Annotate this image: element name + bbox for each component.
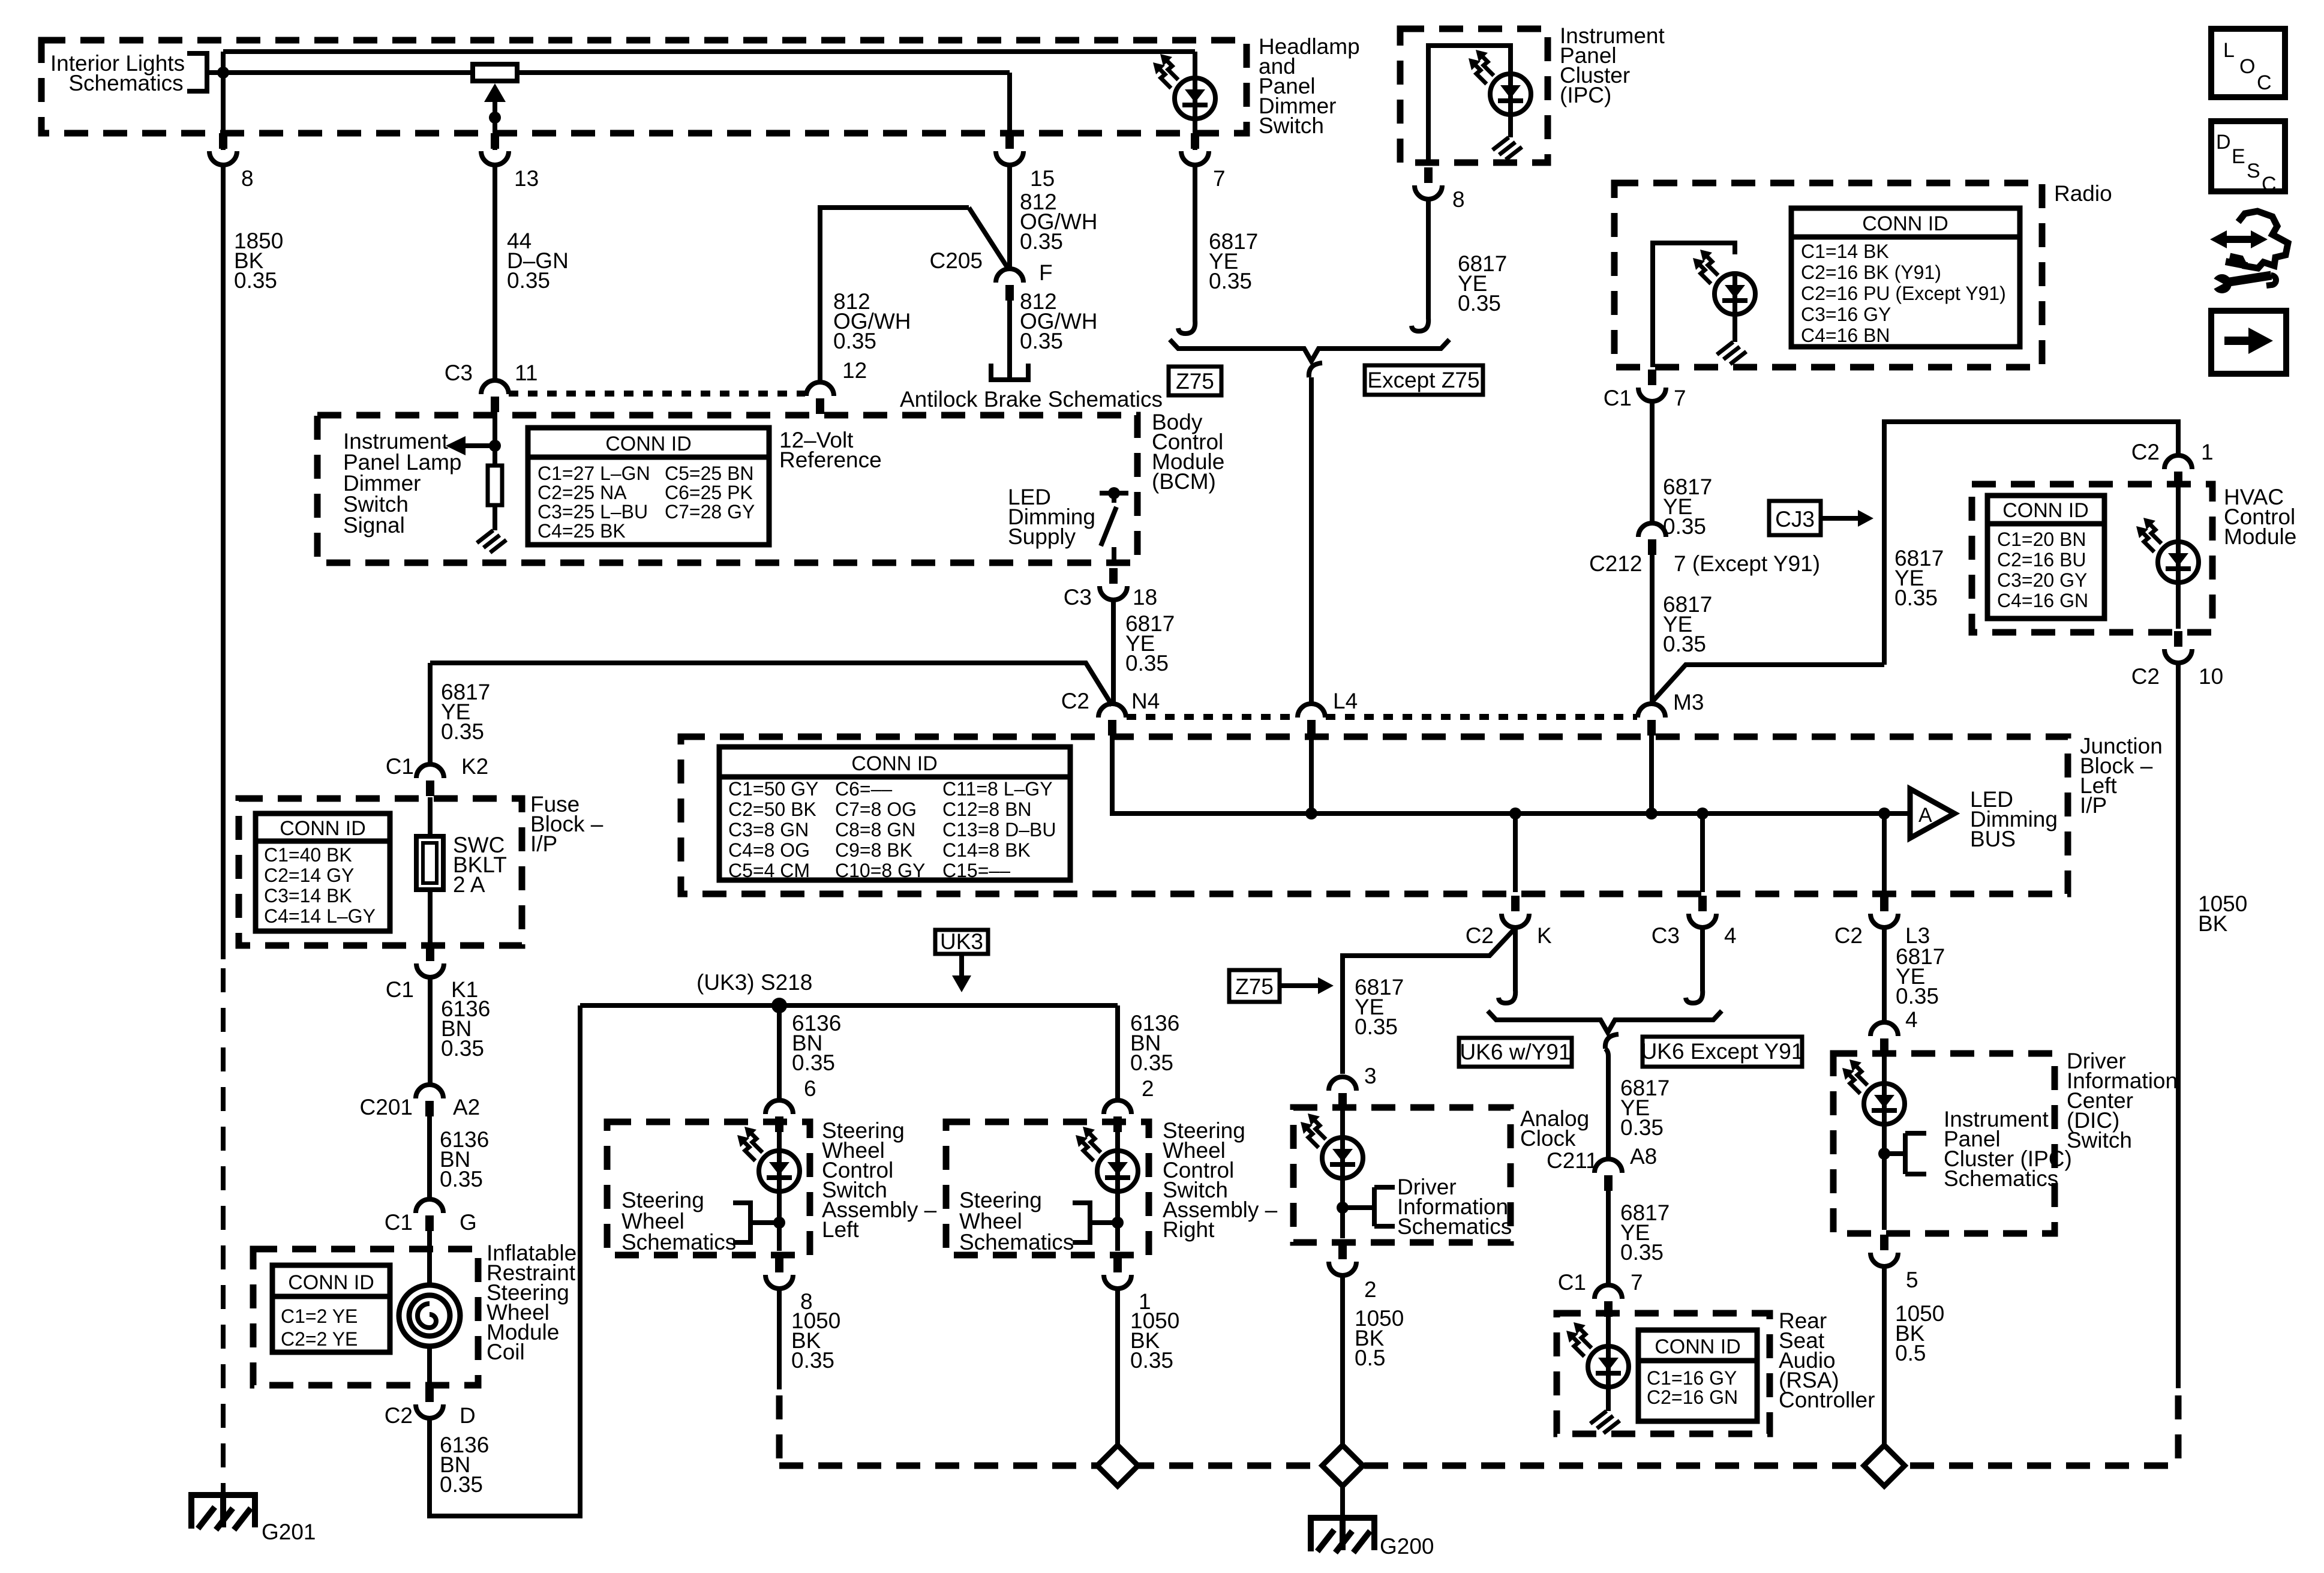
svg-text:Antilock Brake Schematics: Antilock Brake Schematics — [900, 387, 1163, 412]
wire clock internal — [1340, 1107, 1345, 1137]
connector pin M3 — [1638, 704, 1665, 736]
svg-text:0.35: 0.35 — [1896, 984, 1939, 1008]
svg-text:C3: C3 — [1652, 923, 1680, 948]
svg-text:C: C — [2262, 173, 2277, 196]
interior lights schematics box — [41, 40, 1247, 133]
svg-text:2: 2 — [1142, 1076, 1154, 1101]
box label Except Z75 — [1365, 365, 1483, 395]
wire 1050 BK left — [777, 1289, 782, 1389]
HVAC control module dashed box — [1972, 484, 2212, 632]
connector C1 pin 7 (radio) — [1638, 370, 1666, 401]
wire below fuse — [428, 890, 433, 944]
svg-text:C2=16 BU: C2=16 BU — [1997, 549, 2086, 571]
analog clock dashed box — [1293, 1107, 1511, 1242]
wire 6817 YE except Z75 — [1426, 200, 1431, 319]
wiper arrow of rheostat — [484, 83, 506, 102]
svg-text:C2: C2 — [1061, 689, 1089, 713]
svg-text:D: D — [460, 1403, 476, 1428]
connector C1 pin K2 — [416, 764, 444, 796]
svg-text:15: 15 — [1030, 166, 1055, 191]
svg-text:8: 8 — [241, 166, 254, 191]
svg-text:UK6 w/Y91: UK6 w/Y91 — [1460, 1040, 1571, 1064]
svg-text:0.5: 0.5 — [1895, 1341, 1926, 1365]
svg-text:Reference: Reference — [779, 448, 882, 472]
svg-text:C3=14 BK: C3=14 BK — [264, 885, 352, 906]
options brace Z75 — [1170, 340, 1449, 361]
svg-text:C2=2 YE: C2=2 YE — [281, 1328, 358, 1350]
svg-text:G200: G200 — [1380, 1534, 1434, 1559]
wire 6817 YE to N4 — [1111, 601, 1116, 703]
CONN ID table coil — [272, 1265, 390, 1352]
svg-text:C2: C2 — [2131, 664, 2160, 689]
svg-text:4: 4 — [1724, 923, 1737, 948]
wire merged 6817 to C211 — [1605, 1049, 1608, 1158]
svg-text:C3=20 GY: C3=20 GY — [1997, 569, 2087, 591]
connector C212 pin 7 — [1638, 523, 1666, 555]
svg-text:Right: Right — [1163, 1217, 1215, 1242]
coil clockspring spiral — [399, 1285, 460, 1346]
svg-text:0.35: 0.35 — [1209, 269, 1252, 293]
wire 6136 BN to coil — [427, 1115, 432, 1199]
svg-text:UK6 Except Y91: UK6 Except Y91 — [1641, 1039, 1804, 1064]
bracket driver information — [1343, 1187, 1395, 1226]
wire IPC internal — [1428, 46, 1511, 163]
svg-text:C211: C211 — [1547, 1148, 1598, 1173]
box label UK3 — [935, 930, 988, 954]
svg-text:C1=50 GY: C1=50 GY — [728, 778, 818, 800]
svg-text:C4=16 GN: C4=16 GN — [1997, 590, 2088, 611]
connector C2 pin D — [416, 1386, 443, 1418]
svg-text:CONN ID: CONN ID — [2002, 499, 2089, 522]
svg-text:C3: C3 — [1064, 585, 1092, 610]
arrow to instrument panel lamp text — [464, 443, 495, 448]
connector C3 pin 11 — [481, 380, 509, 412]
svg-text:1: 1 — [2201, 440, 2214, 464]
options brace UK6 — [1488, 1011, 1722, 1032]
svg-text:E: E — [2232, 145, 2245, 168]
svg-text:C13=8 D–BU: C13=8 D–BU — [942, 819, 1056, 840]
svg-text:C7=28 GY: C7=28 GY — [665, 501, 755, 523]
svg-text:CONN ID: CONN ID — [851, 752, 938, 775]
svg-text:C1: C1 — [385, 1210, 413, 1235]
svg-text:F: F — [1039, 260, 1053, 285]
DIC switch dashed box — [1833, 1053, 2055, 1233]
connector pin 2 (clock) — [1329, 1244, 1356, 1275]
wire through left assembly — [777, 1131, 782, 1151]
wire bus drop to C3 4 — [1697, 807, 1709, 819]
connector pin 8 (left assembly) — [765, 1257, 793, 1289]
svg-text:(UK3) S218: (UK3) S218 — [696, 970, 812, 995]
svg-text:11: 11 — [515, 361, 538, 385]
svg-text:C1=16 GY: C1=16 GY — [1647, 1367, 1737, 1389]
svg-text:0.35: 0.35 — [791, 1348, 834, 1373]
svg-text:A8: A8 — [1630, 1144, 1657, 1169]
CONN ID table radio — [1791, 208, 2020, 347]
wire right drop to connector 2 — [1115, 1005, 1120, 1100]
LED clock illumination — [1301, 1113, 1363, 1179]
wire to tap — [1115, 1191, 1120, 1251]
svg-text:C205: C205 — [930, 248, 983, 273]
svg-text:Switch: Switch — [1259, 113, 1324, 138]
svg-text:A: A — [1918, 804, 1932, 827]
connector pin L4 — [1298, 704, 1325, 736]
svg-text:C6=25 PK: C6=25 PK — [665, 482, 753, 503]
connector C1 pin K1 — [416, 945, 444, 977]
wire diamond to G200 — [1340, 1486, 1345, 1517]
svg-text:Coil: Coil — [487, 1340, 525, 1364]
svg-text:0.35: 0.35 — [1663, 514, 1706, 539]
connector C201 pin A2 — [416, 1085, 443, 1116]
svg-text:C1=14 BK: C1=14 BK — [1801, 241, 1889, 262]
svg-text:0.35: 0.35 — [1663, 632, 1706, 656]
svg-text:7: 7 — [1213, 166, 1226, 191]
resistor dimmer rheostat — [473, 64, 517, 81]
svg-text:2: 2 — [1364, 1277, 1377, 1302]
connector C1 pin G — [416, 1199, 443, 1231]
svg-text:C1: C1 — [1558, 1270, 1586, 1295]
svg-text:3: 3 — [1364, 1064, 1377, 1088]
wire into coil — [427, 1230, 432, 1286]
svg-text:0.35: 0.35 — [1620, 1240, 1664, 1265]
wire dimmer signal — [493, 414, 497, 446]
svg-text:I/P: I/P — [530, 831, 557, 856]
LED RSA illumination — [1566, 1322, 1629, 1388]
svg-text:C14=8 BK: C14=8 BK — [942, 839, 1031, 861]
steering wheel sch box right — [946, 1122, 1149, 1255]
svg-text:A2: A2 — [453, 1095, 480, 1119]
svg-text:C3=25 L–BU: C3=25 L–BU — [538, 501, 648, 523]
svg-text:L: L — [2223, 39, 2235, 62]
svg-text:C15=––: C15=–– — [942, 860, 1010, 881]
LED IPC illumination — [1469, 50, 1531, 116]
dotted connector line N4-L4-M3 — [1127, 714, 1637, 720]
wire 1050 BK middle — [1115, 1289, 1120, 1446]
svg-text:C1=20 BN: C1=20 BN — [1997, 529, 2086, 550]
svg-text:0.5: 0.5 — [1355, 1346, 1385, 1370]
box label Z75 (2) — [1229, 970, 1280, 1002]
splice diamond left — [1097, 1445, 1138, 1486]
wire N4 to bus — [1112, 734, 1910, 813]
wire DIC internal — [1882, 1053, 1887, 1083]
bracket interior lights — [187, 53, 207, 91]
node junction dot — [217, 67, 229, 79]
svg-text:12: 12 — [842, 358, 867, 383]
BCM dotted top edge — [509, 391, 805, 397]
svg-text:C3=16 GY: C3=16 GY — [1801, 304, 1891, 325]
svg-text:7: 7 — [1631, 1270, 1643, 1295]
svg-text:Except Z75: Except Z75 — [1367, 368, 1479, 392]
svg-text:C1=2 YE: C1=2 YE — [281, 1305, 358, 1327]
svg-text:D: D — [2216, 131, 2231, 154]
svg-text:6: 6 — [804, 1076, 816, 1101]
svg-text:0.35: 0.35 — [234, 268, 277, 293]
wire to ground — [1733, 314, 1737, 342]
wire through right assembly — [1115, 1131, 1120, 1151]
svg-text:C3=8 GN: C3=8 GN — [728, 819, 809, 840]
svg-text:Module: Module — [2224, 524, 2296, 549]
wire 1850 BK drop — [221, 73, 226, 150]
connector C2 pin 10 — [2164, 631, 2192, 663]
svg-text:C212: C212 — [1589, 551, 1642, 576]
svg-text:C201: C201 — [360, 1095, 413, 1119]
svg-text:C9=8 BK: C9=8 BK — [835, 839, 912, 861]
resistor dimmer switch signal — [493, 446, 497, 466]
ground internal RSA — [1590, 1411, 1620, 1433]
splice diamond middle — [1322, 1445, 1363, 1486]
dashed option left edge — [776, 1395, 783, 1466]
svg-text:Controller: Controller — [1779, 1388, 1875, 1412]
wire L4 to bus — [1309, 734, 1314, 813]
rear seat audio dashed box — [1557, 1313, 1770, 1434]
arrow CJ3 — [1821, 516, 1859, 521]
wire 1850 BK dashed to ground — [221, 968, 226, 1494]
svg-text:Supply: Supply — [1008, 524, 1076, 549]
svg-text:C2: C2 — [2131, 440, 2160, 464]
svg-text:C5=25 BN: C5=25 BN — [665, 463, 754, 484]
LED headlamp dimmer — [1153, 54, 1215, 120]
svg-text:N4: N4 — [1131, 689, 1160, 713]
connector pin 15 — [996, 133, 1023, 165]
wire bus drop to C2 K — [1509, 807, 1521, 819]
splice S218 — [771, 998, 787, 1013]
wire left drop to connector 6 — [777, 1005, 782, 1100]
node dot dimmer signal — [489, 440, 501, 452]
svg-text:C12=8 BN: C12=8 BN — [942, 798, 1032, 820]
connector C2 pin K — [1502, 896, 1529, 927]
ground G201 — [188, 1495, 258, 1530]
IPLDS / BCM dashed box — [317, 415, 1137, 563]
icon DESC box — [2211, 121, 2285, 191]
svg-text:0.35: 0.35 — [1125, 651, 1169, 676]
LED radio illumination — [1693, 250, 1755, 316]
svg-text:7: 7 — [1674, 386, 1686, 410]
radio dashed box — [1614, 183, 2042, 367]
svg-text:Radio: Radio — [2054, 181, 2112, 206]
ground internal radio — [1717, 342, 1746, 364]
svg-text:Z75: Z75 — [1235, 974, 1274, 999]
wire 44 D-GN — [493, 166, 497, 380]
wire headlamp drop — [1193, 52, 1197, 150]
svg-text:CONN ID: CONN ID — [1862, 212, 1948, 235]
svg-text:C3: C3 — [445, 361, 473, 385]
svg-text:C10=8 GY: C10=8 GY — [835, 860, 925, 881]
diagonal to C205 — [969, 208, 1009, 270]
svg-text:C1: C1 — [386, 977, 414, 1002]
connector pin 2 — [1104, 1100, 1131, 1132]
svg-text:C2=16 GN: C2=16 GN — [1647, 1386, 1738, 1408]
svg-text:C8=8 GN: C8=8 GN — [835, 819, 915, 840]
svg-text:0.35: 0.35 — [441, 719, 484, 744]
connector pin 8 — [209, 133, 237, 165]
connector C2 pin N4 — [1098, 704, 1126, 736]
svg-text:I/P: I/P — [2080, 793, 2107, 818]
svg-text:G: G — [460, 1210, 477, 1235]
wire 4 to brace — [1700, 928, 1705, 991]
wire 6817 YE (Z75) — [1193, 166, 1197, 322]
svg-text:0.35: 0.35 — [1355, 1014, 1398, 1039]
wire to tap — [1882, 1124, 1887, 1230]
svg-text:8: 8 — [1452, 187, 1465, 212]
connector C205 pin F — [996, 269, 1023, 301]
bracket IPC schematics — [1884, 1133, 1926, 1174]
wire 812 OG/WH upper — [1007, 73, 1012, 268]
wire into fuse — [428, 797, 433, 836]
svg-text:C2: C2 — [1834, 923, 1863, 948]
svg-text:C1=40 BK: C1=40 BK — [264, 844, 352, 866]
wire end hook — [1412, 318, 1428, 331]
ground internal dimmer — [477, 530, 506, 553]
connector pin 7 — [1181, 133, 1209, 165]
steering wheel sch box left — [607, 1122, 810, 1255]
ground G200 — [1308, 1518, 1377, 1553]
wire merged 6817 to L4 — [1309, 377, 1314, 704]
box label Z75 — [1169, 367, 1221, 395]
CONN ID table RSA — [1638, 1330, 1757, 1421]
svg-text:C5=4 CM: C5=4 CM — [728, 860, 810, 881]
bracket left — [733, 1203, 779, 1242]
svg-text:C2=16 PU (Except Y91): C2=16 PU (Except Y91) — [1801, 283, 2006, 304]
wire to ground — [1606, 1387, 1611, 1411]
svg-text:C2=25 NA: C2=25 NA — [538, 482, 627, 503]
connector C3 pin 18 — [1100, 568, 1127, 600]
svg-text:CONN ID: CONN ID — [1655, 1335, 1741, 1358]
svg-text:4: 4 — [1905, 1007, 1918, 1032]
connector C2 pin 1 (HVAC) — [2164, 455, 2192, 487]
svg-text:C11=8 L–GY: C11=8 L–GY — [942, 778, 1053, 800]
wire HVAC lower — [2176, 583, 2181, 629]
bracket right — [1073, 1203, 1118, 1242]
svg-text:CONN ID: CONN ID — [605, 433, 692, 455]
ground internal IPC — [1493, 137, 1522, 160]
brace output curl — [1605, 1034, 1619, 1049]
wire RSA internal — [1606, 1317, 1611, 1347]
wire feed 2 (dimmer) — [207, 70, 1010, 75]
LED right switch assembly — [1076, 1127, 1138, 1193]
LED dimming bus triangle A — [1910, 789, 1954, 838]
svg-text:C: C — [2257, 71, 2272, 94]
svg-text:7 (Except Y91): 7 (Except Y91) — [1674, 551, 1820, 576]
wire HVAC internal — [2176, 487, 2181, 542]
wire feed 1 (top) — [223, 49, 1195, 54]
svg-text:Switch: Switch — [2067, 1128, 2132, 1152]
svg-text:UK3: UK3 — [940, 929, 983, 954]
box label CJ3 — [1769, 501, 1821, 535]
wire M3 to bus — [1649, 734, 1654, 813]
wire 6817 YE to RSA — [1606, 1190, 1611, 1284]
connector C1 pin 7 (RSA) — [1595, 1285, 1622, 1317]
svg-text:C4=14 L–GY: C4=14 L–GY — [264, 905, 376, 927]
connector C2 pin L3 — [1870, 896, 1898, 927]
LED DIC illumination — [1842, 1059, 1905, 1125]
svg-text:(IPC): (IPC) — [1560, 83, 1611, 107]
LED HVAC illumination — [2136, 518, 2199, 584]
wire 12-volt reference riser — [820, 208, 969, 382]
splice diamond right — [1864, 1445, 1905, 1486]
svg-text:0.35: 0.35 — [441, 1036, 484, 1061]
svg-text:C2: C2 — [1466, 923, 1494, 948]
svg-text:0.35: 0.35 — [1020, 329, 1063, 353]
wire to tap — [777, 1191, 782, 1251]
wire radio internal — [1653, 243, 1735, 367]
svg-text:Signal: Signal — [343, 513, 405, 538]
svg-text:CONN ID: CONN ID — [280, 817, 366, 840]
svg-text:C6=––: C6=–– — [835, 778, 892, 800]
icon arrow box — [2211, 311, 2286, 374]
wire 6136 BN — [428, 978, 433, 1084]
wire below coil — [427, 1345, 432, 1386]
wire 6817 YE to fuse block — [430, 663, 1112, 764]
box label UK6 w/Y91 — [1459, 1038, 1572, 1067]
connector pin 12 — [806, 382, 834, 414]
icon LOC box — [2211, 29, 2285, 97]
svg-text:2 A: 2 A — [453, 872, 485, 897]
arrow UK3 — [959, 954, 964, 975]
wire to internal ground — [1508, 115, 1513, 137]
connector pin 4 (DIC) — [1870, 1022, 1898, 1054]
svg-text:C2=50 BK: C2=50 BK — [728, 798, 816, 820]
svg-text:0.35: 0.35 — [1130, 1050, 1173, 1075]
wire 1850 BK — [221, 166, 226, 959]
brace output curl — [1309, 363, 1322, 377]
svg-text:Clock: Clock — [1520, 1126, 1576, 1151]
svg-text:0.35: 0.35 — [1620, 1115, 1664, 1140]
svg-text:10: 10 — [2199, 664, 2223, 689]
connector pin 3 (clock) — [1329, 1077, 1356, 1109]
wire to tap — [1340, 1178, 1345, 1238]
svg-text:L4: L4 — [1333, 689, 1358, 713]
svg-text:Left: Left — [822, 1217, 859, 1242]
fork to antilock brake schematics — [991, 364, 1028, 380]
svg-text:5: 5 — [1906, 1268, 1918, 1292]
wire 6136 BN loop to S218 — [430, 1005, 580, 1516]
svg-text:Schematics: Schematics — [959, 1230, 1074, 1254]
wire 812 below C205 — [1007, 301, 1012, 379]
svg-text:O: O — [2239, 55, 2255, 78]
svg-text:C2: C2 — [385, 1403, 413, 1428]
svg-text:Schematics: Schematics — [621, 1230, 736, 1254]
wire 6817 YE to M3 — [1650, 555, 1655, 703]
connector C3 pin 4 — [1689, 896, 1716, 927]
LED left switch assembly — [737, 1127, 800, 1193]
svg-text:C7=8 OG: C7=8 OG — [835, 798, 917, 820]
svg-text:0.35: 0.35 — [1130, 1348, 1173, 1373]
switch LED dimming supply — [1100, 493, 1128, 546]
svg-text:C4=25 BK: C4=25 BK — [538, 520, 626, 542]
dashed continuation to options line — [2175, 1395, 2182, 1466]
connector pin 8 (IPC) — [1415, 167, 1442, 199]
svg-text:C4=16 BN: C4=16 BN — [1801, 325, 1890, 346]
svg-text:CJ3: CJ3 — [1775, 507, 1815, 532]
svg-text:0.35: 0.35 — [1020, 229, 1063, 254]
CONN ID table HVAC — [1987, 496, 2104, 619]
svg-text:0.35: 0.35 — [440, 1472, 483, 1497]
svg-text:0.35: 0.35 — [792, 1050, 835, 1075]
svg-text:BUS: BUS — [1970, 827, 2016, 851]
svg-text:K2: K2 — [461, 754, 488, 779]
svg-text:13: 13 — [514, 166, 539, 191]
diagonal branch to HVAC feed — [1652, 665, 1884, 703]
wire S218 crossbar — [580, 1003, 1118, 1008]
svg-text:0.35: 0.35 — [1894, 586, 1938, 610]
svg-text:M3: M3 — [1673, 690, 1704, 715]
fuse SWC BKLT 2A — [416, 836, 443, 890]
connector pin 13 — [481, 133, 509, 165]
connector C211 pin A8 — [1595, 1159, 1622, 1191]
svg-text:C1: C1 — [1604, 386, 1632, 410]
coil module dashed box — [253, 1249, 478, 1385]
connector pin 6 — [765, 1100, 793, 1132]
svg-text:C1: C1 — [386, 754, 414, 779]
